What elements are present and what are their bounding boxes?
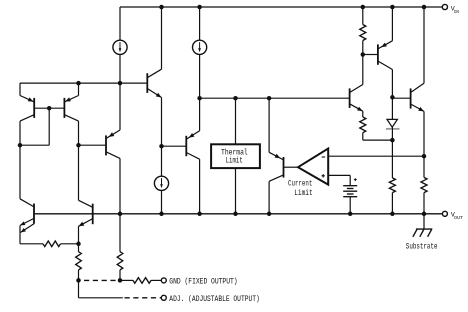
current source I1 [113, 40, 127, 54]
transistor Q10 (PNP) [378, 7, 393, 97]
svg-text:IN: IN [454, 9, 460, 15]
node Q11 emitter / minus sense / R8 [422, 154, 427, 159]
resistor R2 (vertical to GND row) [78, 244, 80, 252]
current source I3 [154, 176, 168, 190]
wire amp plus input [328, 174, 350, 176]
resistor R4 (to GND pin) [120, 279, 133, 281]
node top rail / R5 [361, 5, 366, 10]
wire dashed ADJ link [125, 297, 162, 299]
node rail / R3 branch [118, 212, 123, 217]
battery reference [343, 178, 357, 214]
wire mirror emitter rail y=83 [20, 82, 146, 84]
wire I3 [161, 146, 163, 176]
node top rail / I2 [197, 5, 202, 10]
svg-text:Substrate: Substrate [406, 243, 438, 252]
node rail / Q7 collector [197, 212, 202, 217]
svg-text:Limit: Limit [294, 189, 313, 198]
node mirror base tie [47, 106, 52, 111]
wire Q1 collector down to Q3 [19, 145, 21, 199]
node Q5 emitter / Q7 base / I3 [159, 144, 164, 149]
transistor Q9 (NPN driver) [350, 55, 363, 112]
wire I1 branch down to Q6 [119, 83, 121, 130]
resistor R3 (vertical from output rail) [119, 214, 121, 252]
node rail / battery [348, 212, 353, 217]
wire I1 to mirror rail [119, 55, 121, 84]
wire driver bus [200, 97, 349, 99]
wire bus to Q8 emitter [268, 98, 270, 152]
node rail / I3 [159, 212, 164, 217]
wire thermal limit to rail [235, 168, 237, 214]
svg-text:OUT: OUT [454, 215, 463, 221]
block Thermal Limit [211, 144, 260, 168]
current source I2 [193, 40, 207, 54]
svg-text:ADJ. (ADJUSTABLE OUTPUT): ADJ. (ADJUSTABLE OUTPUT) [169, 294, 259, 304]
transistor Q3 (dual-emitter NPN, bottom left) [20, 199, 34, 244]
op-amp Current Limit [298, 149, 328, 185]
node top rail / Q5 collector [159, 5, 164, 10]
wire dashed R2-R3 link [84, 279, 120, 281]
node Q1 collector junction [18, 143, 23, 148]
node rail / R8 + substrate [422, 212, 427, 217]
wire amp minus input to Q11 emitter sense [328, 155, 424, 157]
terminal V_IN [442, 4, 447, 9]
wire V_OUT rail [34, 213, 442, 215]
resistor R5 (from V_IN rail) [362, 7, 364, 25]
wire Q11 base [392, 97, 410, 99]
node diode / R6 / R7 [390, 138, 395, 143]
transistor Q4 (NPN, bottom left) [79, 200, 93, 244]
wire base tie to left collector [48, 108, 50, 145]
node bus / thermal limit [233, 96, 238, 101]
wire Q7 base [162, 145, 187, 147]
diode D1 [386, 97, 400, 140]
wire ADJ path [78, 280, 80, 297]
transistor Q2 (PNP, right of mirror) [64, 83, 78, 145]
resistor R1 (horizontal, Q3 emitter) [20, 243, 43, 245]
transistor Q5 (NPN) [147, 7, 161, 146]
node rail / R7 [390, 212, 395, 217]
wire Q2 collector down to Q4 [78, 145, 80, 200]
transistor Q11 (NPN output) [411, 7, 424, 156]
node bus / I2 / Q7 emitter [197, 96, 202, 101]
transistor Q8 (PNP current limit) [269, 152, 283, 214]
node mirror rail / Q2 emitter [76, 81, 81, 86]
svg-text:GND (FIXED OUTPUT): GND (FIXED OUTPUT) [169, 276, 237, 286]
node R2 bottom [76, 278, 81, 283]
transistor Q1 (PNP, left of mirror) [20, 83, 34, 145]
wire top rail to I2 [199, 7, 201, 40]
wire Q10 base [363, 54, 378, 56]
terminal ADJ [161, 295, 166, 300]
terminal GND [161, 278, 166, 283]
wire bus to thermal limit box [235, 98, 237, 144]
node top rail / Q11 collector [422, 5, 427, 10]
wire Q6 base [79, 144, 107, 146]
transistor Q7 (PNP) [186, 131, 199, 214]
wire I2 to bus [199, 55, 201, 99]
node rail / Q8 collector [267, 212, 272, 217]
transistor Q6 (PNP) [106, 130, 120, 214]
node R5 / Q10 base / Q9 collector [361, 52, 366, 57]
wire mirror base tie [34, 107, 64, 109]
resistor R7 [391, 140, 393, 178]
wire top rail corner to I1 [119, 7, 121, 40]
node mirror rail / I1 branch [118, 81, 123, 86]
node Q2 collector junction [76, 143, 81, 148]
node Q10 collector / Q11 base / diode [390, 95, 395, 100]
node R1 / R2 / Q4 emitter [76, 242, 81, 247]
node top rail / Q10 emitter [390, 5, 395, 10]
wire bus to Q7 emitter [199, 98, 201, 131]
node R3 bottom [118, 278, 123, 283]
ground substrate [413, 214, 432, 237]
node bus / Q8 emitter [267, 96, 272, 101]
svg-text:Limit: Limit [226, 157, 243, 166]
wire V_IN top rail [120, 6, 442, 8]
terminal V_OUT [442, 211, 447, 216]
svg-text:Current: Current [288, 180, 312, 189]
wire Q8 base to amp output [284, 166, 299, 168]
resistor R6 (Q9 emitter) [362, 111, 364, 117]
node rail / thermal limit [233, 212, 238, 217]
resistor R8 [423, 156, 425, 177]
